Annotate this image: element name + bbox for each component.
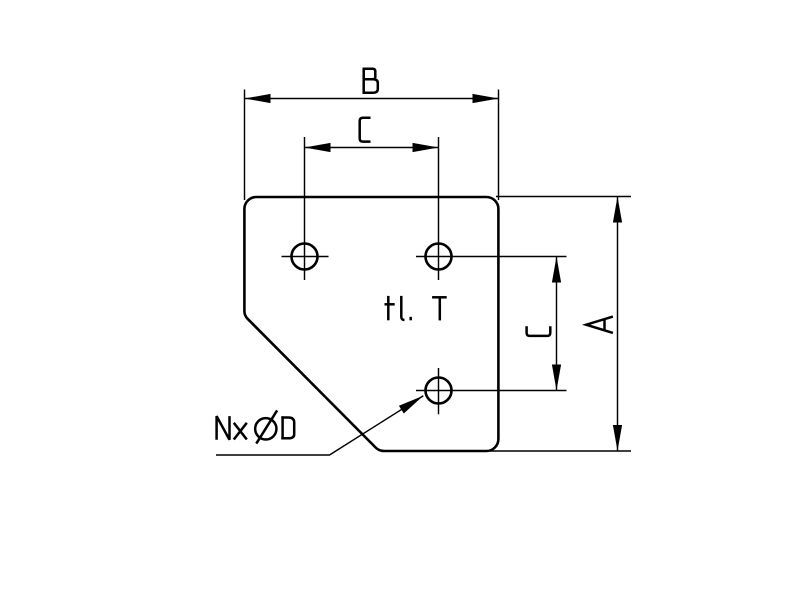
dimension A extension bottom (490, 450, 631, 452)
note text tl. T (385, 296, 447, 321)
hole H2 (426, 244, 452, 270)
dimension C line (305, 147, 439, 149)
leader line NxOD (216, 396, 423, 455)
label C (360, 118, 371, 142)
dimension C vertical arrow bottom (552, 365, 561, 391)
dimension B extension left (244, 90, 246, 201)
hole H1 (292, 244, 318, 270)
label C (rotated) (527, 326, 551, 336)
dimension C arrow right (413, 143, 439, 152)
centerline H1 vertical (also C extension) (304, 137, 306, 280)
dimension A extension top (496, 196, 631, 198)
label A (rotated) (586, 317, 613, 333)
plate outline (244, 197, 498, 451)
dimension A line (617, 197, 619, 452)
centerline H3 vertical (438, 368, 440, 414)
leader arrow (399, 396, 423, 414)
dimension C vertical line (556, 257, 558, 391)
label B (363, 69, 378, 93)
hole H3 (426, 378, 452, 404)
dimension B arrow right (473, 94, 499, 103)
dimension B line (245, 98, 499, 100)
dimension A arrow bottom (613, 425, 622, 451)
centerline H1 horizontal (282, 256, 329, 258)
dimension C arrow left (305, 143, 331, 152)
centerline H2 vertical (also C extension) (438, 137, 440, 280)
dimension A arrow top (613, 197, 622, 223)
dimension B arrow left (245, 94, 271, 103)
dimension B extension right (498, 90, 500, 201)
label NxOD (217, 410, 295, 443)
dimension C vertical arrow top (552, 257, 561, 283)
centerline H2 horizontal (also C-vert extension) (416, 256, 567, 258)
centerline H3 horizontal (also C-vert extension) (416, 390, 567, 392)
